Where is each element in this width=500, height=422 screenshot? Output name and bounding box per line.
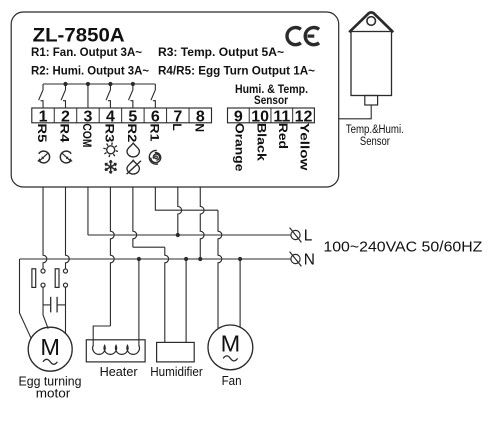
svg-text:Orange: Orange: [233, 123, 247, 172]
svg-text:R1: Fan. Output 3A~: R1: Fan. Output 3A~: [31, 45, 142, 59]
svg-text:R2: Humi. Output 3A~: R2: Humi. Output 3A~: [31, 64, 149, 78]
svg-text:COM: COM: [80, 123, 94, 147]
svg-text:motor: motor: [36, 386, 71, 400]
svg-text:Fan: Fan: [222, 374, 242, 388]
svg-text:M: M: [221, 330, 241, 356]
svg-text:M: M: [40, 334, 60, 360]
svg-text:L: L: [304, 227, 313, 244]
svg-text:Sensor: Sensor: [360, 136, 390, 148]
svg-text:R4: R4: [57, 123, 71, 142]
svg-text:L: L: [170, 123, 184, 130]
svg-text:Humidifier: Humidifier: [150, 365, 203, 379]
svg-text:R4/R5: Egg Turn Output 1A~: R4/R5: Egg Turn Output 1A~: [158, 64, 315, 78]
svg-text:Temp.&Humi.: Temp.&Humi.: [346, 124, 404, 136]
svg-text:Red: Red: [276, 123, 290, 149]
svg-text:Black: Black: [254, 123, 268, 161]
svg-text:R1: R1: [147, 123, 161, 141]
svg-text:R3: Temp. Output 5A~: R3: Temp. Output 5A~: [158, 45, 284, 59]
svg-text:100~240VAC 50/60HZ: 100~240VAC 50/60HZ: [323, 239, 482, 256]
svg-text:Heater: Heater: [100, 365, 138, 379]
svg-text:R2: R2: [125, 123, 139, 142]
svg-text:Sensor: Sensor: [254, 93, 288, 107]
svg-text:ZL-7850A: ZL-7850A: [33, 24, 125, 46]
svg-text:R5: R5: [35, 123, 49, 142]
svg-text:N: N: [192, 123, 206, 132]
svg-text:Yellow: Yellow: [298, 123, 312, 171]
svg-text:N: N: [304, 251, 315, 268]
svg-text:R3: R3: [102, 123, 116, 142]
